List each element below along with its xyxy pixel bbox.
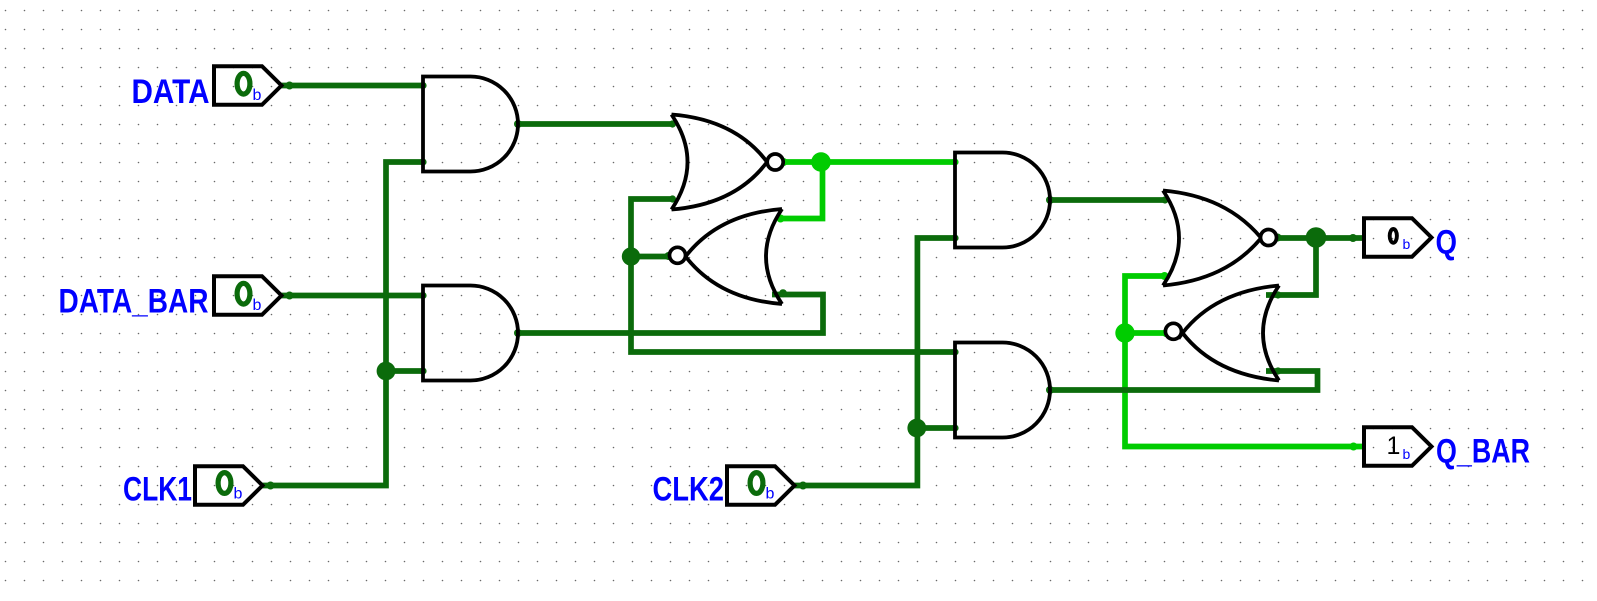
port dot CLK1 pin output bbox=[267, 482, 275, 490]
junction net Q at NOR U7 output bbox=[1306, 227, 1327, 248]
port dot AND U1 input B bbox=[419, 158, 426, 165]
wire net CLK2 branch: junction to AND U4 input B bbox=[917, 425, 955, 431]
junction net CLK1 at AND U2 input B bbox=[377, 362, 396, 381]
wire net QB branch up to NOR U7 input B bbox=[1125, 276, 1166, 336]
port dot NOR U7 input B bbox=[1161, 272, 1169, 280]
junction net QB at NOR U8 output bbox=[1115, 323, 1134, 342]
svg-text:CLK1: CLK1 bbox=[123, 471, 192, 509]
svg-text:b: b bbox=[1403, 446, 1411, 462]
port dot AND U3 input B bbox=[951, 234, 958, 241]
wire net R2: AND U4 output right, up, to NOR U8 input B bbox=[1050, 371, 1318, 390]
wire net CLK1: pin right, up, to AND U1 input B bbox=[262, 162, 423, 486]
svg-text:DATA: DATA bbox=[132, 73, 210, 111]
NOR gate U6 body (mirrored) bbox=[682, 209, 783, 304]
value label 0b of CLK1 pin bbox=[218, 473, 231, 494]
svg-text:b: b bbox=[234, 486, 243, 503]
wire net Q branch: junction down, left to NOR U8 input A bbox=[1266, 241, 1316, 295]
wire net Q: NOR U7 output to Q pin bbox=[1275, 235, 1365, 241]
AND gate U2 bbox=[423, 286, 518, 381]
NOR gate U8 bubble bbox=[1165, 323, 1181, 339]
svg-text:CLK2: CLK2 bbox=[653, 471, 725, 509]
port dot AND U4 output bbox=[1046, 386, 1054, 394]
PORT DOTS bbox=[267, 82, 1358, 490]
wire net R: AND U2 output right, up, to NOR U6 input B bbox=[518, 295, 823, 334]
junction net MQ at NOR U5 output bbox=[811, 152, 831, 172]
NOR gate U6 bubble bbox=[670, 247, 686, 263]
port dot AND U1 input A bbox=[419, 82, 426, 89]
port dot AND U2 output bbox=[514, 329, 522, 337]
port dot NOR U6 input B bbox=[779, 289, 787, 297]
port dot DATA pin output bbox=[286, 82, 294, 90]
port dot NOR U7 input A bbox=[1161, 196, 1168, 203]
AND gate U4 bbox=[955, 343, 1050, 438]
port dot NOR U6 output bbox=[665, 252, 673, 260]
WIRES-DARK bbox=[262, 86, 1364, 486]
port dot NOR U8 output bbox=[1162, 329, 1170, 337]
svg-text:Q_BAR: Q_BAR bbox=[1436, 433, 1530, 471]
value label 0b of CLK2 pin bbox=[750, 473, 763, 494]
svg-text:b: b bbox=[253, 297, 262, 314]
input pin CLK1 bbox=[195, 466, 263, 505]
port dot NOR U8 input B bbox=[1274, 367, 1281, 374]
PIN VALUES bbox=[218, 73, 1410, 502]
port dot AND U4 input B bbox=[951, 424, 958, 431]
wire net QB: NOR U8 output to junction bbox=[1125, 330, 1166, 336]
svg-text:b: b bbox=[766, 486, 775, 503]
port dot Q_BAR pin input bbox=[1350, 443, 1358, 451]
wire net MQ branch: junction down to NOR U6 input A bbox=[781, 165, 823, 219]
value label 0b of DATA_BAR pin bbox=[237, 283, 250, 304]
svg-text:b: b bbox=[1403, 236, 1411, 252]
input pin DATA bbox=[214, 66, 282, 105]
port dot CLK2 pin output bbox=[799, 482, 807, 490]
NOR gate U7 body bbox=[1163, 191, 1266, 286]
wire net MQB: NOR U6 output to junction bbox=[631, 254, 669, 260]
wire net MQB branch up to NOR U5 input B bbox=[631, 199, 671, 259]
port dot AND U1 output bbox=[514, 120, 522, 128]
wire net MQB branch down and right to AND U4 input A bbox=[631, 254, 955, 352]
port dot AND U4 input A bbox=[951, 348, 958, 355]
wire net CLK1 branch: junction to AND U2 input B bbox=[386, 368, 423, 374]
GATES bbox=[423, 77, 1279, 438]
port dot AND U2 input B bbox=[419, 367, 426, 374]
port dot NOR U5 input A bbox=[669, 120, 676, 127]
AND gate U3 bbox=[955, 153, 1050, 248]
WIRES-BRIGHT bbox=[781, 162, 1365, 447]
wire net S2: AND U3 output to NOR U7 input A bbox=[1050, 197, 1167, 203]
port dot NOR U7 output bbox=[1274, 234, 1282, 242]
wire net DATA: pin to AND U1 input A bbox=[281, 83, 423, 89]
value label 0b of Q pin bbox=[1390, 229, 1397, 243]
port dot NOR U8 input A bbox=[1274, 291, 1281, 298]
wire net DATA_BAR: pin to AND U2 input A bbox=[281, 293, 423, 299]
output pin Q_BAR bbox=[1364, 427, 1432, 466]
input pin CLK2 bbox=[727, 466, 795, 505]
port dot AND U3 input A bbox=[951, 158, 958, 165]
port dot NOR U5 input B bbox=[669, 195, 676, 202]
port dot NOR U5 output bbox=[780, 158, 788, 166]
wire net QB branch down and to Q_BAR pin bbox=[1125, 330, 1364, 446]
NOR gate U5 bubble bbox=[767, 154, 783, 170]
NOR gate U5 body bbox=[672, 115, 772, 210]
svg-text:b: b bbox=[253, 87, 262, 104]
svg-text:DATA_BAR: DATA_BAR bbox=[59, 283, 209, 321]
junction net CLK2 at AND U4 input B bbox=[907, 419, 926, 438]
output pin Q bbox=[1364, 218, 1432, 257]
port dot AND U2 input A bbox=[419, 292, 426, 299]
NOR gate U7 bubble bbox=[1261, 230, 1277, 246]
input pin DATA_BAR bbox=[214, 276, 282, 315]
port dot DATA_BAR pin output bbox=[286, 292, 294, 300]
value label 0b of DATA pin bbox=[237, 73, 250, 94]
PINS bbox=[195, 66, 1432, 505]
port dot NOR U6 input A bbox=[777, 215, 785, 223]
wire net MQ: NOR U5 output to AND U3 input A bbox=[783, 159, 955, 165]
wire net CLK2: pin right, up, to AND U3 input B bbox=[794, 238, 955, 486]
wire net S: AND U1 output to NOR U5 input A bbox=[518, 121, 671, 127]
NOR gate U8 body (mirrored) bbox=[1179, 286, 1280, 381]
svg-text:Q: Q bbox=[1436, 224, 1458, 262]
svg-text:1: 1 bbox=[1387, 432, 1401, 460]
port dot Q pin input bbox=[1349, 234, 1357, 242]
junction net MQB at NOR U6 output bbox=[622, 247, 640, 265]
port dot AND U3 output bbox=[1046, 196, 1054, 204]
AND gate U1 bbox=[423, 77, 518, 172]
